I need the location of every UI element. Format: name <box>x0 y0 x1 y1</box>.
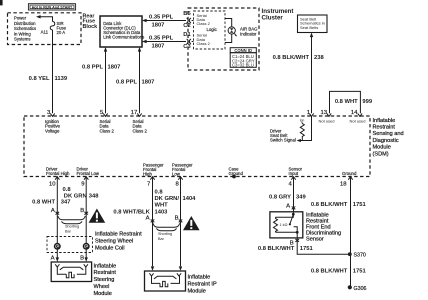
connector A sensor <box>286 203 295 209</box>
pin 9 <box>77 167 100 188</box>
svg-text:0.8: 0.8 <box>63 187 72 193</box>
svg-text:Sensor: Sensor <box>306 237 324 243</box>
svg-text:Class 2: Class 2 <box>133 128 148 133</box>
connector A passenger <box>146 215 155 222</box>
svg-text:Not used: Not used <box>350 118 366 123</box>
svg-text:B: B <box>80 208 84 214</box>
svg-text:A: A <box>286 203 290 209</box>
wire pin10 down <box>56 177 58 258</box>
wire pin8 down <box>180 177 182 267</box>
svg-text:Ground: Ground <box>229 171 244 176</box>
svg-text:Link Communications: Link Communications <box>103 35 144 40</box>
seat belt schematics box <box>298 15 328 33</box>
wire to power distribution (arrow) <box>36 15 53 21</box>
svg-text:Class 2: Class 2 <box>100 128 115 133</box>
svg-text:Steering Wheel: Steering Wheel <box>95 238 133 244</box>
steering wheel coil box (dashed) <box>47 237 93 253</box>
svg-text:0.8: 0.8 <box>155 190 164 196</box>
rear fuse block label <box>83 13 98 30</box>
svg-text:A11: A11 <box>41 30 49 35</box>
IP module box <box>145 271 186 291</box>
wire DLC to pin 17 <box>116 47 154 113</box>
svg-text:Diagnostic: Diagnostic <box>373 138 399 144</box>
svg-text:17: 17 <box>131 110 138 116</box>
svg-text:Systems: Systems <box>14 37 30 42</box>
svg-text:Frontal Low: Frontal Low <box>77 171 100 176</box>
squib (driver air bag) <box>55 264 88 277</box>
squib (IP air bag) <box>149 273 181 287</box>
svg-text:0.8 WHT: 0.8 WHT <box>32 199 55 205</box>
ground G306 <box>348 285 367 292</box>
sensor internals: switch and resistor <box>274 212 299 238</box>
pin 1 <box>307 110 314 116</box>
pin 18 <box>340 171 357 187</box>
sensor label <box>306 213 341 243</box>
svg-text:1139: 1139 <box>55 76 68 82</box>
coil driver high <box>54 243 61 250</box>
DLC box <box>100 16 144 47</box>
label box Hot In RUN And START <box>28 4 75 10</box>
SDM box (dashed) <box>24 116 370 177</box>
svg-text:1: 1 <box>307 110 310 116</box>
svg-text:13: 13 <box>320 110 327 116</box>
CONN ID table <box>230 48 256 68</box>
svg-text:Restraint IP: Restraint IP <box>188 281 217 287</box>
svg-text:Bar: Bar <box>158 237 165 241</box>
svg-text:0.8 GRY: 0.8 GRY <box>269 195 291 201</box>
svg-text:C3: C3 <box>183 44 191 50</box>
shorting bar bracket passenger <box>153 223 180 241</box>
splice S370 <box>348 252 366 258</box>
wire label 0.8 GRY 349 <box>269 195 306 201</box>
svg-text:0.8 WHT: 0.8 WHT <box>335 99 358 105</box>
svg-text:B: B <box>175 215 179 221</box>
svg-text:9: 9 <box>81 182 84 188</box>
svg-text:Not used: Not used <box>319 118 335 123</box>
svg-text:G306: G306 <box>354 286 367 292</box>
svg-text:1751: 1751 <box>353 269 367 275</box>
svg-text:Switch Signal: Switch Signal <box>270 138 296 143</box>
pin 3 <box>45 110 61 133</box>
svg-text:High: High <box>143 172 152 177</box>
coil driver low <box>83 243 90 250</box>
svg-text:Restraint: Restraint <box>373 125 396 131</box>
SDM label <box>373 118 404 158</box>
svg-text:WHT: WHT <box>155 203 169 209</box>
svg-text:Steering: Steering <box>94 277 115 283</box>
svg-text:0.35 PPL: 0.35 PPL <box>149 35 174 41</box>
svg-text:347: 347 <box>61 199 71 205</box>
svg-text:Sensing and: Sensing and <box>373 131 404 137</box>
logic box (inner dashed) <box>194 11 226 49</box>
wire pin4 down to sensor <box>293 177 295 212</box>
svg-text:Indicator: Indicator <box>240 31 257 36</box>
pin 5 <box>100 110 115 133</box>
svg-text:Shorting: Shorting <box>158 232 172 236</box>
pin 7 <box>143 163 164 188</box>
svg-text:0.8 BLK/WHT: 0.8 BLK/WHT <box>273 55 310 61</box>
svg-text:0.8 BLK/WHT: 0.8 BLK/WHT <box>258 246 295 252</box>
connector B sensor <box>290 239 299 246</box>
svg-text:Wheel: Wheel <box>94 284 110 290</box>
warning triangle passenger <box>183 216 200 230</box>
svg-text:Block: Block <box>83 24 98 30</box>
scan corner mark <box>0 0 3 5</box>
wire sensor B to S370 <box>297 238 350 254</box>
connector B driver <box>80 208 88 215</box>
wire pin7 down <box>152 177 154 267</box>
svg-text:0.8 YEL: 0.8 YEL <box>29 76 50 82</box>
svg-text:Restraint: Restraint <box>94 270 117 276</box>
svg-text:238: 238 <box>314 55 324 61</box>
svg-text:0.35 PPL: 0.35 PPL <box>149 14 174 20</box>
svg-text:0.8 BLK/WHT: 0.8 BLK/WHT <box>311 202 348 208</box>
arrows into steering module <box>56 257 88 261</box>
wire fuse to pin 3 <box>52 30 54 113</box>
wire labels passenger loop <box>113 190 196 216</box>
warning triangle driver <box>89 209 106 223</box>
front end discriminating sensor box <box>270 212 303 238</box>
svg-text:S370: S370 <box>354 253 366 259</box>
svg-text:Class 2: Class 2 <box>197 41 211 46</box>
connector A driver <box>51 208 59 215</box>
coil label <box>95 232 142 252</box>
svg-text:1751: 1751 <box>353 202 367 208</box>
svg-text:1807: 1807 <box>108 65 121 71</box>
svg-text:1807: 1807 <box>142 80 155 86</box>
svg-text:Logic: Logic <box>207 27 218 32</box>
svg-text:Bar: Bar <box>65 229 72 233</box>
svg-text:18: 18 <box>340 182 347 188</box>
svg-text:C2: C2 <box>183 23 190 29</box>
svg-text:7: 7 <box>147 182 150 188</box>
wire DLC to cluster B5/C2 <box>142 11 194 29</box>
svg-text:Inflatable: Inflatable <box>373 118 396 124</box>
svg-text:B: B <box>80 256 84 262</box>
wire labels driver loop <box>32 187 99 206</box>
svg-text:0.8 BLK/WHT: 0.8 BLK/WHT <box>311 269 348 275</box>
svg-text:Inflatable: Inflatable <box>94 263 117 269</box>
case ground <box>229 167 244 179</box>
wire pin9 down <box>85 177 87 258</box>
svg-text:0.8 PPL: 0.8 PPL <box>82 65 103 71</box>
svg-text:Shorting: Shorting <box>65 224 79 228</box>
svg-text:0.8 PPL: 0.8 PPL <box>116 80 137 86</box>
svg-text:Module: Module <box>373 145 391 151</box>
svg-text:Ign: Ign <box>300 118 305 122</box>
wire label 0.8 BLK/WHT 1751 (lower) <box>311 269 367 275</box>
power distribution box (dashed) <box>8 13 82 45</box>
not used loop pins 13/14 <box>319 91 373 123</box>
wire DLC to pin 5 <box>82 47 120 113</box>
svg-text:Input: Input <box>289 171 299 176</box>
IP module label <box>188 275 217 295</box>
svg-text:Seat Belts: Seat Belts <box>300 25 318 30</box>
wire DLC to cluster D1/C3 <box>142 32 194 50</box>
pin 8 <box>172 163 193 188</box>
pin 4 <box>289 167 303 188</box>
svg-text:(SDM): (SDM) <box>373 151 389 157</box>
svg-text:Voltage: Voltage <box>45 128 60 133</box>
shorting bar bracket driver <box>58 216 85 233</box>
svg-text:CONN ID: CONN ID <box>234 48 252 53</box>
svg-text:Inflatable Restraint: Inflatable Restraint <box>95 232 142 238</box>
svg-text:999: 999 <box>362 99 372 105</box>
wire label 0.8 BLK/WHT 1751 (sensor) <box>258 246 314 252</box>
wire pin18 to ground <box>350 177 352 288</box>
arrows into IP module <box>151 266 182 270</box>
svg-text:A: A <box>51 208 55 214</box>
svg-text:1807: 1807 <box>152 44 165 50</box>
steering wheel module label <box>94 263 117 297</box>
steering wheel module box <box>51 262 91 282</box>
svg-text:Low: Low <box>172 172 181 177</box>
svg-text:Class 2: Class 2 <box>197 21 211 26</box>
air bag indicator lamp U1 <box>225 19 258 43</box>
wire label 0.8 BLK/WHT 1751 (upper) <box>311 202 367 208</box>
svg-text:Cluster: Cluster <box>262 14 284 21</box>
svg-text:B5: B5 <box>183 11 191 17</box>
pin 17 <box>131 110 148 133</box>
wire label 0.8 YEL 1139 <box>29 76 68 82</box>
svg-text:D1: D1 <box>183 32 191 38</box>
svg-text:1807: 1807 <box>152 23 165 29</box>
svg-text:1751: 1751 <box>300 246 314 252</box>
svg-text:14: 14 <box>351 110 358 116</box>
driver seat belt switch circuit (inside SDM) <box>270 116 312 142</box>
svg-text:20 A: 20 A <box>57 30 66 35</box>
svg-text:Inflatable: Inflatable <box>188 275 211 281</box>
svg-text:349: 349 <box>296 195 306 201</box>
instrument cluster box <box>188 8 293 70</box>
svg-text:Frontal High: Frontal High <box>46 171 70 176</box>
pin 10 <box>46 167 70 188</box>
connector B passenger <box>175 215 183 222</box>
svg-text:C3=32 BLU: C3=32 BLU <box>232 63 254 68</box>
svg-text:DK GRN: DK GRN <box>64 193 87 199</box>
svg-text:Hot In RUN And START: Hot In RUN And START <box>32 5 73 9</box>
svg-text:A: A <box>146 215 150 221</box>
svg-text:Module Coil: Module Coil <box>95 245 125 251</box>
svg-text:DK GRN/: DK GRN/ <box>155 196 180 202</box>
svg-text:Ground: Ground <box>342 171 357 176</box>
fuse SIR 20A <box>41 21 67 35</box>
svg-text:Module: Module <box>188 288 206 294</box>
svg-text:10: 10 <box>49 182 56 188</box>
svg-text:1 kΩ: 1 kΩ <box>280 223 288 227</box>
wire seat belt to pin 1 <box>273 33 325 114</box>
svg-text:1404: 1404 <box>183 196 197 202</box>
svg-text:1403: 1403 <box>155 210 169 216</box>
svg-text:348: 348 <box>89 193 99 199</box>
svg-text:A: A <box>51 256 55 262</box>
svg-text:Module: Module <box>94 291 112 297</box>
